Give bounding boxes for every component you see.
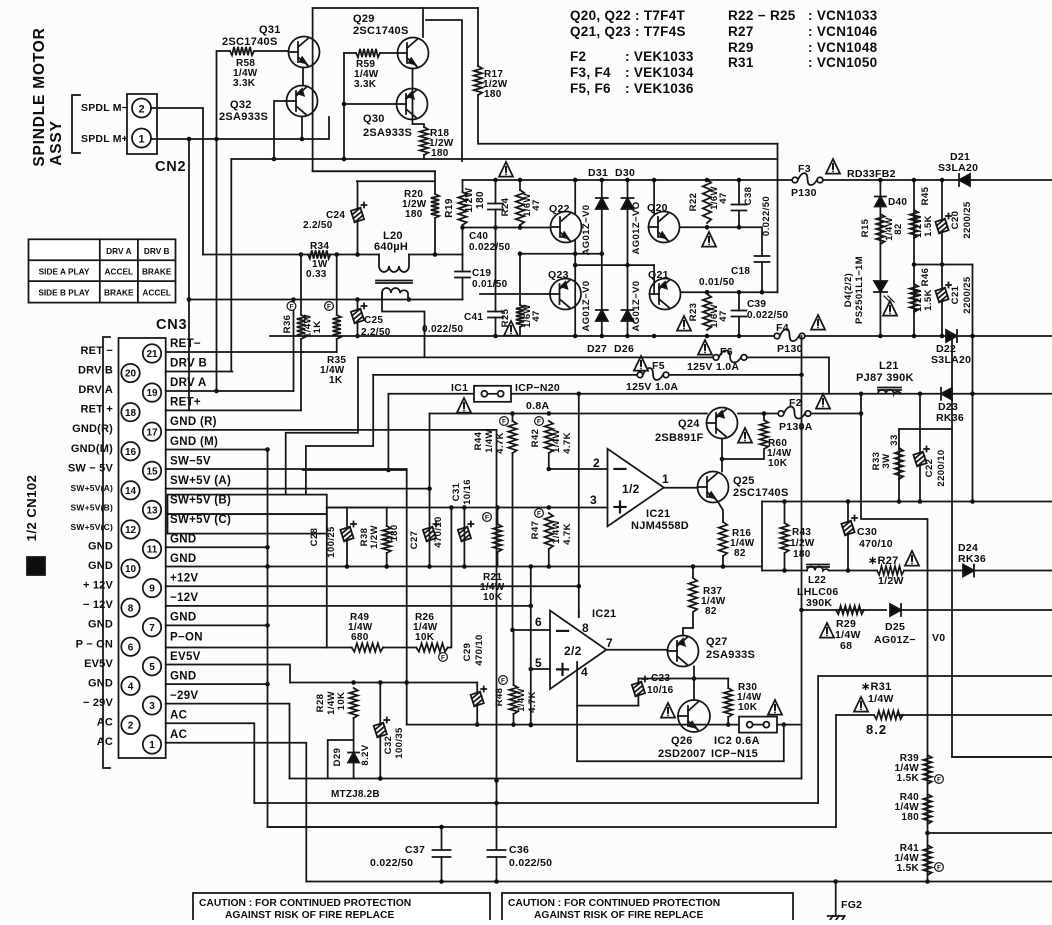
svg-text:F5: F5 <box>652 360 665 372</box>
svg-text:P130: P130 <box>791 187 817 199</box>
wire rail1 y254 <box>203 254 379 256</box>
junction rail180/R22 <box>705 178 710 183</box>
svg-text:R46: R46 <box>920 268 931 287</box>
svg-text:SW+5V(A): SW+5V(A) <box>71 483 113 493</box>
resistor R38 <box>383 526 391 553</box>
svg-text:RET −: RET − <box>81 345 113 357</box>
capacitor C29 <box>471 692 484 707</box>
svg-text:20: 20 <box>125 369 137 380</box>
junction y724/x530 <box>529 722 534 727</box>
junction x575/y265 <box>573 263 578 268</box>
junction y336/D26 <box>625 334 630 339</box>
wire D30 column <box>627 180 629 336</box>
wire D24 right <box>975 570 1052 572</box>
connector CN3 pin 13 <box>143 501 161 519</box>
svg-text:R24: R24 <box>500 197 511 216</box>
junction rail180/D40col <box>878 178 883 183</box>
svg-text:SPDL M−: SPDL M− <box>81 102 128 114</box>
svg-text:Q27: Q27 <box>706 636 728 648</box>
svg-text:Q32: Q32 <box>230 99 252 111</box>
capacitor C22 <box>913 452 926 467</box>
svg-text:F6: F6 <box>720 346 733 358</box>
svg-text:DRV B: DRV B <box>78 365 113 377</box>
warning tri right R30 <box>768 700 782 715</box>
capacitor C21 <box>935 288 948 303</box>
junction B/base drop <box>272 157 277 162</box>
capacitor C20 <box>935 219 948 234</box>
wire x406 col <box>406 470 408 725</box>
wire y676 line <box>818 675 1052 677</box>
capacitor C30 <box>841 521 854 536</box>
svg-text:10K: 10K <box>738 702 758 713</box>
wire C30 col <box>847 502 849 522</box>
svg-text:2200/10: 2200/10 <box>936 449 947 486</box>
junction y264/C20C21 <box>940 262 945 267</box>
svg-text:5: 5 <box>149 662 155 673</box>
wire P-ON / R49 row <box>166 647 352 649</box>
wire C40 col top <box>495 180 497 204</box>
wire R18 bottom <box>423 155 425 159</box>
wire C25 bottom <box>357 323 359 336</box>
wire pin7 line <box>606 649 667 651</box>
connector CN3 pin 9 <box>143 579 161 597</box>
wire R31 corner to y827 <box>835 715 837 827</box>
svg-text:9: 9 <box>149 584 155 595</box>
resistor R48 <box>509 685 517 714</box>
wire mid rail A y227 <box>463 227 551 229</box>
svg-text:0.01/50: 0.01/50 <box>472 279 508 290</box>
op-amp IC21 1/2 <box>608 449 664 527</box>
svg-text:: VEK1033: : VEK1033 <box>625 49 694 64</box>
svg-text:R19: R19 <box>444 198 455 218</box>
inductor L20 secondary <box>382 288 408 300</box>
wire L20 sec left leg <box>382 293 425 357</box>
caution box 2 <box>502 893 793 925</box>
resistor R15 <box>876 214 884 244</box>
svg-text:− 29V: − 29V <box>83 697 114 709</box>
junction R40/y833 <box>925 831 930 836</box>
svg-text:1/2: 1/2 <box>622 482 640 496</box>
svg-text:EV5V: EV5V <box>170 651 201 663</box>
wire y881 rail <box>306 881 1052 883</box>
svg-text:: VCN1048: : VCN1048 <box>808 40 878 55</box>
junction rail336/C21 <box>940 334 945 339</box>
svg-text:7: 7 <box>606 636 613 650</box>
wire R44 stub <box>512 414 514 422</box>
box around SW+5V (C) <box>168 514 327 534</box>
wire rail y336 <box>270 335 774 337</box>
resistor R60 <box>760 420 768 449</box>
resistor R22 <box>703 179 711 223</box>
junction IC1/+12V col <box>577 392 582 397</box>
resistor R18 <box>420 127 428 155</box>
wire x952 col <box>952 336 1052 757</box>
wire pin5 line <box>531 668 550 670</box>
wire D25 right <box>902 609 1052 611</box>
wire collector feed y171 <box>313 170 435 172</box>
svg-text:−12V: −12V <box>170 592 198 604</box>
wire pin8 stub <box>578 611 580 618</box>
svg-text:16: 16 <box>125 447 137 458</box>
transistor Q25 <box>698 472 729 503</box>
mark R42 F <box>535 417 544 426</box>
wire rail y724 <box>407 724 739 726</box>
svg-text:390K: 390K <box>806 597 832 609</box>
wire C21 bot <box>941 302 943 336</box>
junction R44/pin6 <box>510 628 515 633</box>
wire R42 bottom <box>548 453 550 469</box>
svg-text:−29V: −29V <box>170 690 198 702</box>
junction y336/Q2223col <box>573 334 578 339</box>
junction y394/C22 feed <box>918 392 923 397</box>
wire ground bus vertical <box>268 450 442 828</box>
wire C22 feed <box>919 394 921 429</box>
connector CN3 pin 16 <box>121 442 139 460</box>
wire C29 line y682 <box>290 682 477 684</box>
junction rail2/DRVA riser <box>291 297 296 302</box>
svg-text:F: F <box>441 654 445 661</box>
junction y778/C32 <box>378 776 383 781</box>
inductor L20 core <box>376 281 412 284</box>
junction GND p7/gnd bus <box>265 623 270 628</box>
svg-text:D4(2/2): D4(2/2) <box>843 273 854 307</box>
svg-text:RD33FB2: RD33FB2 <box>847 168 896 180</box>
wire C20 bot <box>941 233 943 265</box>
diode D23 <box>941 388 952 400</box>
svg-text:C28: C28 <box>309 528 320 547</box>
wire F2 right <box>811 413 861 415</box>
diode D27 <box>596 310 608 321</box>
capacitor C37 <box>433 850 451 857</box>
warning tri IC1 <box>457 398 471 413</box>
svg-text:640µH: 640µH <box>374 241 408 253</box>
svg-text:4.7K: 4.7K <box>562 523 573 545</box>
junction C37/y881 <box>439 879 444 884</box>
wire R28 bottom to D29 <box>353 718 355 779</box>
svg-text:C36: C36 <box>509 844 529 856</box>
svg-text:R42: R42 <box>530 429 541 448</box>
svg-text:1/2W: 1/2W <box>790 538 815 549</box>
resistor R31 <box>874 711 903 719</box>
junction y501/C22 <box>918 499 923 504</box>
svg-text:6: 6 <box>535 615 542 629</box>
svg-text:F3: F3 <box>798 163 811 175</box>
svg-text:AC: AC <box>170 709 187 721</box>
svg-text:3.3K: 3.3K <box>354 79 377 90</box>
svg-text:PS2501L1−1M: PS2501L1−1M <box>854 256 865 324</box>
svg-text:L21: L21 <box>879 360 899 372</box>
wire R35 top <box>336 255 338 316</box>
connector CN3 pin 8 <box>121 598 139 616</box>
svg-text:R47: R47 <box>530 521 541 540</box>
resistor R33 <box>895 448 903 479</box>
svg-text:D30: D30 <box>615 167 635 179</box>
svg-text:C37: C37 <box>405 844 425 856</box>
junction y264/R45R46 <box>912 262 917 267</box>
wire GND row pin7 <box>166 624 268 626</box>
svg-text:125V 1.0A: 125V 1.0A <box>626 381 678 393</box>
svg-text:4: 4 <box>581 665 588 679</box>
svg-text:R44: R44 <box>473 431 484 450</box>
wire R58 left drop <box>217 51 231 391</box>
capacitor C28 <box>340 527 353 542</box>
connector CN3 pin 4 <box>121 677 139 695</box>
svg-text:IC2 0.6A: IC2 0.6A <box>714 735 760 747</box>
wire R30 bot <box>727 717 729 725</box>
junction rail336/D40col <box>878 334 883 339</box>
wire y833 rail <box>928 832 1052 834</box>
wire R19 top <box>462 180 464 192</box>
warning tri F3 <box>826 159 840 174</box>
svg-text:0.022/50: 0.022/50 <box>509 857 552 869</box>
svg-text:3: 3 <box>149 701 155 712</box>
wire AC row pin1 <box>166 743 307 882</box>
wire x972 col <box>972 265 974 502</box>
wire R31 line left <box>836 714 874 716</box>
transistor Q27 <box>668 636 699 667</box>
svg-text:C27: C27 <box>409 531 420 550</box>
wire C22 box top <box>899 428 952 430</box>
wire SPDL M+ row <box>151 117 329 139</box>
junction R38/gnd rail <box>384 564 389 569</box>
svg-text:1/2 CN102: 1/2 CN102 <box>24 475 39 542</box>
junction GND(M)/gnd bus <box>265 447 270 452</box>
svg-text:1/2W: 1/2W <box>369 525 380 549</box>
svg-text:C39: C39 <box>747 299 766 310</box>
junction C31/gnd rail <box>462 564 467 569</box>
capacitor C31 <box>458 527 471 542</box>
svg-text:2SA933S: 2SA933S <box>219 111 268 123</box>
wire R38 top <box>386 508 388 527</box>
svg-text:470/10: 470/10 <box>859 538 893 550</box>
svg-text:+12V: +12V <box>170 573 198 585</box>
mark R36 F <box>287 302 296 311</box>
mark R44 F <box>500 417 509 426</box>
diode D21 <box>959 174 970 186</box>
junction DRVA/R58drop <box>214 389 219 394</box>
svg-text:F: F <box>502 418 506 425</box>
svg-text:R36: R36 <box>282 315 293 334</box>
wire GND row pin4 <box>166 683 268 685</box>
svg-text:C20: C20 <box>950 211 961 230</box>
svg-text:10K: 10K <box>768 458 788 469</box>
wire L21 drop col <box>861 394 928 882</box>
wire rail F5 y375 <box>373 374 637 376</box>
svg-text:Q21, Q23 : T7F4S: Q21, Q23 : T7F4S <box>570 24 686 39</box>
wire -12V row <box>166 605 531 607</box>
capacitor C41 <box>488 312 503 318</box>
wire C23 col <box>637 679 639 685</box>
wire y570 to D24 <box>904 570 963 572</box>
wire C39 col bot <box>738 317 740 337</box>
diode D22 <box>946 330 957 342</box>
svg-text:8: 8 <box>128 603 134 614</box>
mark R35 F <box>325 302 334 311</box>
svg-text:ICP−N15: ICP−N15 <box>711 748 758 760</box>
svg-text:AG01Z−: AG01Z− <box>874 634 916 646</box>
svg-text:R29: R29 <box>728 40 754 55</box>
resistor R41 <box>923 845 931 875</box>
svg-text:1.5K: 1.5K <box>897 773 920 784</box>
wire x818 drop to y803 <box>817 676 819 803</box>
svg-text:82: 82 <box>734 548 746 559</box>
svg-text:AG01Z−V0: AG01Z−V0 <box>581 205 592 256</box>
junction x496/y780 <box>494 778 499 783</box>
svg-text:2SC1740S: 2SC1740S <box>353 25 409 37</box>
junction railC/R23 <box>705 290 710 295</box>
wire C19 col bot <box>462 278 464 300</box>
svg-text:Q30: Q30 <box>363 113 385 125</box>
connector CN3 body <box>119 338 166 758</box>
svg-text:C25: C25 <box>364 315 383 326</box>
wire R31 right <box>898 714 1052 716</box>
svg-text:: VCN1050: : VCN1050 <box>808 55 877 70</box>
wire Q30 to R18 <box>413 124 425 127</box>
wire C19 col top <box>462 255 464 272</box>
connector CN3 pin 2 <box>121 716 139 734</box>
svg-text:BRAKE: BRAKE <box>104 288 134 298</box>
svg-text:C32: C32 <box>383 736 394 755</box>
svg-text:1/4W: 1/4W <box>868 693 894 705</box>
resistor R34 <box>308 250 331 258</box>
svg-text:R31: R31 <box>728 55 754 70</box>
svg-text:47: 47 <box>531 310 542 321</box>
wire stair b <box>306 375 373 495</box>
svg-text:17: 17 <box>146 427 158 438</box>
resistor R37 <box>689 578 697 612</box>
svg-text:1/4W: 1/4W <box>516 688 527 712</box>
mark R21 F <box>483 513 492 522</box>
capacitor C23 <box>632 682 645 697</box>
junction y265/D30col <box>625 263 630 268</box>
wire GND (R) row <box>166 429 497 431</box>
resistor R23 <box>703 294 711 330</box>
warning tri F6 <box>698 340 712 355</box>
svg-text:0.022/50: 0.022/50 <box>422 324 463 335</box>
resistor R39 <box>923 755 931 784</box>
resistor R25 <box>516 305 524 327</box>
junction rail180/D30 <box>625 178 630 183</box>
junction C37/y827 <box>439 825 444 830</box>
junction rail1/R35 col <box>334 252 339 257</box>
wire left box edge x312 <box>313 8 435 171</box>
svg-text:2/2: 2/2 <box>564 644 582 658</box>
svg-text:RET−: RET− <box>170 338 201 350</box>
svg-text:1.5K: 1.5K <box>897 863 920 874</box>
resistor R21 <box>493 524 501 552</box>
connector CN3 pin 20 <box>121 364 139 382</box>
wire pin3 line <box>327 507 608 509</box>
connector CN3 pin 19 <box>143 383 161 401</box>
resistor R24 <box>516 190 524 225</box>
junction y336/D27 <box>600 334 605 339</box>
junction R41/y881 <box>925 879 930 884</box>
svg-text:C23: C23 <box>651 673 670 684</box>
junction x530/pin5 <box>529 667 534 672</box>
svg-text:IC1: IC1 <box>451 382 468 394</box>
svg-text:Q23: Q23 <box>548 269 569 281</box>
wire R58 to base Q31 <box>254 50 288 52</box>
svg-text:MTZJ8.2B: MTZJ8.2B <box>331 789 380 800</box>
wire x777 link rails <box>777 144 779 180</box>
svg-text:C29: C29 <box>462 643 473 662</box>
svg-text:: VCN1046: : VCN1046 <box>808 24 878 39</box>
diode D29 zener <box>348 753 359 763</box>
svg-text:P−ON: P−ON <box>170 631 203 643</box>
svg-text:7: 7 <box>149 623 155 634</box>
svg-text:2SC1740S: 2SC1740S <box>222 36 278 48</box>
wire +12V col <box>578 394 580 617</box>
junction rail1/C24 col <box>355 252 360 257</box>
svg-text:125V 1.0A: 125V 1.0A <box>687 361 739 373</box>
connector CN2 body <box>127 94 157 154</box>
svg-text:SPDL M+: SPDL M+ <box>81 133 128 145</box>
junction FG2/y881 <box>833 879 838 884</box>
junction C41/rail336 <box>493 334 498 339</box>
junction -12V / col <box>529 604 534 609</box>
svg-text:2SD2007: 2SD2007 <box>658 748 706 760</box>
junction pin3/R26riser <box>449 505 454 510</box>
svg-text:BRAKE: BRAKE <box>142 267 172 277</box>
resistor R58 <box>230 47 254 55</box>
junction rail1/R36 col <box>299 252 304 257</box>
op-amp IC21 2/2 <box>550 611 606 690</box>
svg-text:1: 1 <box>149 740 155 751</box>
svg-text:C18: C18 <box>731 266 750 277</box>
wire rail1 right <box>409 254 463 256</box>
wire rail y724 right <box>777 724 802 726</box>
svg-text:SW−5V: SW−5V <box>170 455 211 467</box>
wire rail IC1 y394 <box>388 393 1052 395</box>
wire R48 bot <box>513 714 515 725</box>
svg-text:1: 1 <box>662 472 669 486</box>
junction y394/x972 <box>970 392 975 397</box>
mark R26 F <box>439 653 448 662</box>
wire rail F6 y357 <box>358 356 713 358</box>
junction C36/y881 <box>494 879 499 884</box>
junction F2line/R60 <box>762 411 767 416</box>
svg-text:15: 15 <box>146 466 158 477</box>
wire y20 rail <box>426 20 462 161</box>
junction rail1/R20 <box>433 252 438 257</box>
svg-text:21: 21 <box>146 349 158 360</box>
label M symbol <box>27 557 45 575</box>
svg-text:V0: V0 <box>932 632 945 644</box>
wire rail y180 right <box>823 179 1052 181</box>
wire Q20 rail y227 <box>680 226 762 228</box>
wire B y159 <box>231 158 777 160</box>
svg-text:R23: R23 <box>688 303 699 322</box>
fuse F3 <box>792 177 798 183</box>
wire SPDL M- to rail1 <box>151 108 203 255</box>
transistor Q24 <box>707 408 738 439</box>
wire rail y336 fuse right <box>805 335 1052 337</box>
svg-text:0.022/50: 0.022/50 <box>469 242 510 253</box>
mark R48 F <box>499 676 508 685</box>
junction Q32 emitter / M+ row <box>300 137 305 142</box>
bracket CN3 left <box>103 337 110 768</box>
junction y682/R28 <box>351 680 356 685</box>
wire C28 col top <box>346 508 348 527</box>
wire GND (M) row <box>166 449 268 451</box>
wire R20 bottom <box>434 218 436 255</box>
svg-text:Q21: Q21 <box>648 269 669 281</box>
wire R37 top <box>692 567 694 579</box>
warning tri mid rail <box>499 162 513 177</box>
fuse F6 <box>713 355 719 361</box>
junction y413/R42 <box>547 411 552 416</box>
wire pin6 line <box>513 629 551 631</box>
